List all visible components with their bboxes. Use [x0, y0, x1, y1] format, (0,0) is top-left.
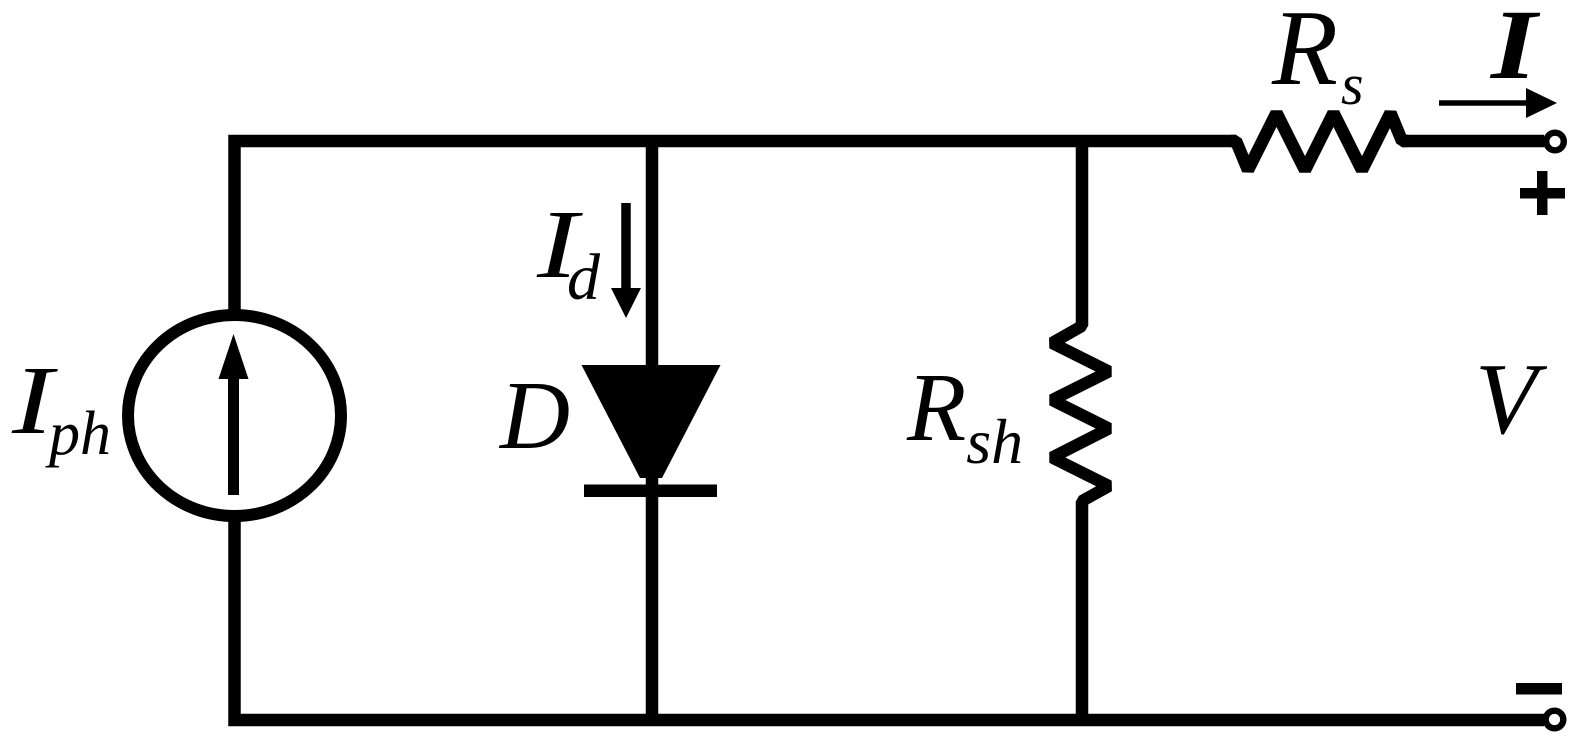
wire: bottom rail with left vertical from current source — [235, 518, 1545, 720]
svg-text:d: d — [567, 241, 601, 314]
svg-text:D: D — [498, 362, 570, 469]
terminal node + (open circle) — [1546, 133, 1564, 151]
svg-text:R: R — [1271, 0, 1338, 108]
wire: diode branch vertical — [646, 141, 659, 720]
I output current arrow (rightward) — [1439, 88, 1557, 118]
resistor R2 (Rsh shunt resistor zigzag) — [1052, 320, 1109, 507]
svg-text:I: I — [1490, 0, 1541, 100]
terminal node - (open circle) — [1546, 711, 1564, 729]
wire: Rsh branch vertical top — [1076, 141, 1089, 326]
plus sign — [1520, 171, 1565, 215]
diode D cathode bar — [584, 485, 717, 498]
wire: Rsh branch vertical bottom — [1076, 501, 1089, 720]
svg-text:V: V — [1475, 343, 1548, 456]
Id current arrow (downward) — [611, 203, 641, 318]
svg-text:ph: ph — [45, 400, 111, 468]
wire: top rail left segment with left vertical drop to current source — [235, 141, 1237, 312]
diode D triangle — [582, 365, 721, 478]
current source arrow (upward) — [219, 334, 249, 495]
current source Iph circle — [128, 315, 341, 516]
resistor R1 (Rs series resistor zigzag) — [1230, 113, 1408, 170]
wire: top rail right segment to + terminal — [1402, 135, 1544, 148]
svg-text:s: s — [1341, 52, 1364, 117]
minus sign — [1516, 683, 1562, 695]
